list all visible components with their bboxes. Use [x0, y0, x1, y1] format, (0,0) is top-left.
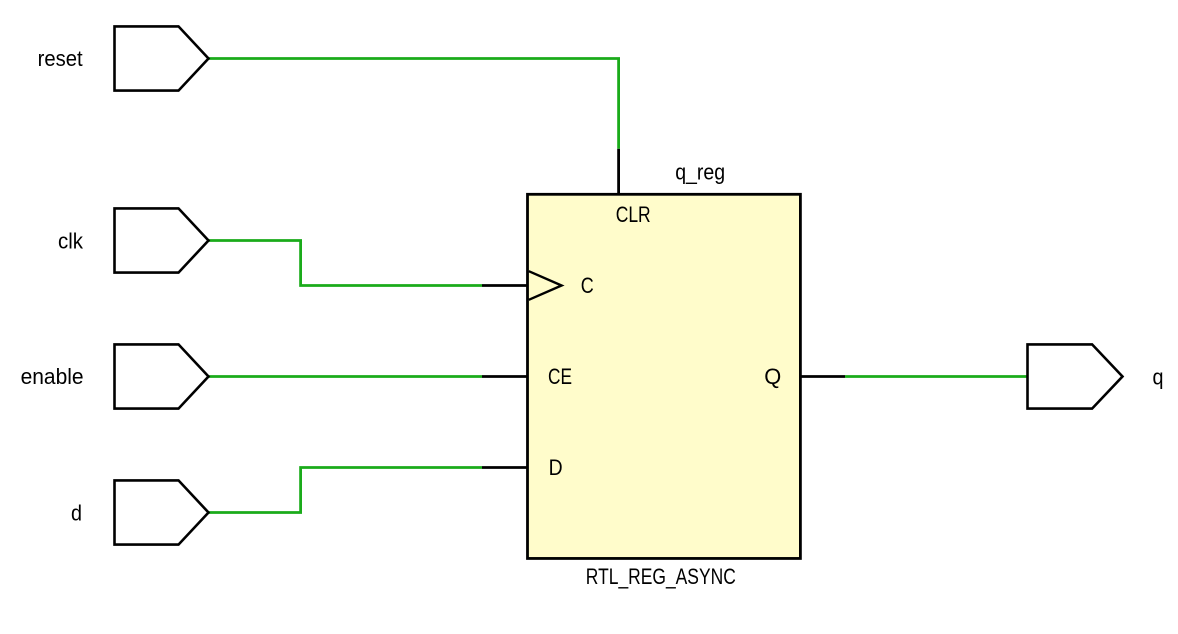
wire CLR pin stub (black) [617, 149, 620, 195]
wire CE pin stub (black) [482, 375, 529, 378]
svg-text:q: q [1153, 365, 1164, 390]
output port q [1028, 344, 1164, 408]
svg-text:CE: CE [548, 364, 572, 389]
svg-text:C: C [581, 273, 594, 298]
svg-text:CLR: CLR [616, 202, 651, 227]
svg-text:q_reg: q_reg [675, 159, 725, 184]
wire enable net (green) [208, 375, 482, 378]
svg-text:clk: clk [58, 228, 84, 253]
input port d [71, 480, 209, 544]
wire clk net (green) [208, 241, 482, 286]
input port reset [38, 26, 209, 90]
wire C pin stub (black) [482, 284, 529, 287]
svg-text:D: D [549, 455, 563, 480]
wire reset net (green) [208, 59, 619, 149]
svg-text:enable: enable [21, 364, 84, 389]
svg-text:RTL_REG_ASYNC: RTL_REG_ASYNC [586, 564, 736, 589]
input port enable [21, 344, 209, 408]
svg-text:Q: Q [764, 364, 781, 389]
svg-text:d: d [71, 500, 82, 525]
svg-text:reset: reset [38, 46, 83, 71]
pin C clock triangle [529, 271, 562, 300]
wire q net (green) [845, 375, 1027, 378]
wire D pin stub (black) [482, 466, 529, 469]
register q_reg (RTL_REG_ASYNC) body [528, 159, 801, 589]
wire Q pin stub (black) [799, 375, 845, 378]
wire d net (green) [208, 468, 482, 513]
input port clk [58, 208, 209, 272]
